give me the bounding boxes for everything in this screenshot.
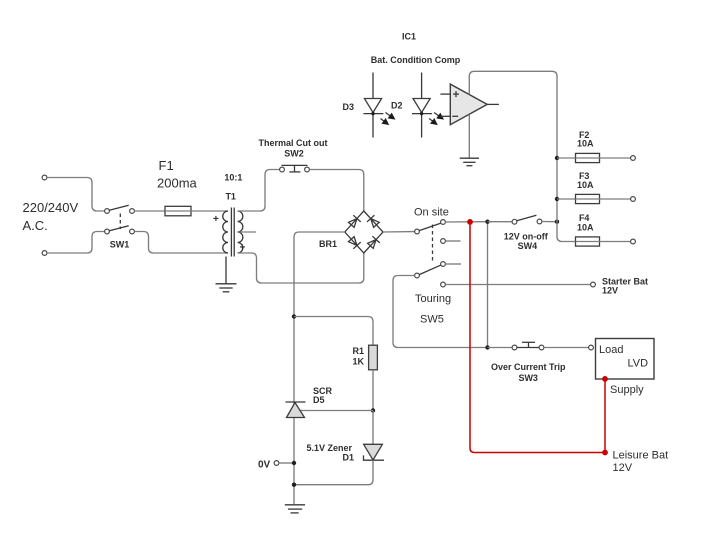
svg-text:D2: D2 — [391, 101, 403, 111]
node F3 output terminal — [631, 197, 636, 202]
wire T1 secondary bottom to BR1 bottom — [238, 253, 364, 283]
svg-text:D1: D1 — [343, 453, 355, 463]
ground below T1 — [216, 257, 237, 292]
junction on-site node — [485, 220, 489, 224]
wire red leisure battery feed — [470, 223, 605, 453]
junction red leisure bat — [602, 450, 608, 456]
node LVD load terminal — [589, 345, 594, 350]
junction R1 branch tap — [292, 314, 296, 318]
svg-text:BR1: BR1 — [319, 239, 337, 249]
wire SW5 upper throw to node (on site) — [445, 221, 485, 223]
ground bottom rail — [285, 505, 305, 513]
wire bus to F3 — [557, 198, 576, 200]
resistor R1 — [369, 345, 378, 370]
wire IC1 ground pin down — [468, 115, 470, 158]
zener diode D1 — [364, 444, 385, 460]
wire tap to R1 — [294, 317, 373, 346]
wire F4 to terminal — [600, 241, 631, 243]
wire SW3 to LVD load terminal — [544, 347, 589, 349]
wire SW5 lower throw to starter battery — [445, 284, 590, 286]
svg-text:On site: On site — [414, 207, 449, 219]
bridge rectifier BR1 — [345, 211, 383, 253]
wire SW1 to F1 — [134, 210, 164, 212]
wire AC N to SW1 lower pole — [47, 232, 105, 254]
wire BR1 left vertex to DC negative rail — [294, 232, 345, 504]
junction F3 tap — [555, 197, 559, 201]
svg-text:+: + — [240, 243, 246, 254]
svg-text:12V: 12V — [602, 285, 618, 295]
wire AC L to SW1 upper pole — [47, 178, 105, 212]
svg-text:Touring: Touring — [415, 293, 451, 305]
svg-text:5.1V Zener: 5.1V Zener — [307, 443, 353, 453]
svg-text:12V: 12V — [613, 462, 633, 474]
node Starter Bat terminal — [591, 282, 596, 287]
svg-text:LVD: LVD — [628, 358, 649, 370]
svg-text:Over Current Trip: Over Current Trip — [491, 362, 566, 372]
wire T1 secondary top to SW2 — [238, 170, 280, 212]
node F4 output terminal — [631, 239, 636, 244]
wire 0V terminal to rail — [279, 462, 292, 464]
fuse F3 — [576, 194, 600, 203]
svg-text:220/240V: 220/240V — [23, 200, 79, 215]
svg-text:R1: R1 — [353, 346, 365, 356]
junction 0V tap — [292, 461, 296, 465]
wire 12V bus lower section to F4 — [557, 158, 576, 242]
svg-text:10A: 10A — [577, 138, 594, 148]
node AC input terminal N — [42, 251, 47, 256]
transformer T1 — [223, 208, 243, 257]
pin output stub — [487, 103, 499, 105]
wire IC1 supply pin to 12V bus top — [469, 71, 557, 158]
junction SW4 bus — [555, 220, 559, 224]
wire T1 secondary center tap stub — [238, 231, 256, 233]
junction F2 tap — [555, 156, 559, 160]
pin + input stub — [440, 93, 450, 95]
svg-text:+: + — [213, 214, 219, 225]
junction SW3 line — [485, 345, 489, 349]
wire F3 to terminal — [600, 198, 631, 200]
ground below IC1 — [460, 158, 479, 166]
LED D2 — [412, 73, 443, 138]
wire SW1 lower to T1 primary bottom — [134, 232, 228, 254]
wire BR1 right to SW5 pole — [383, 231, 415, 233]
junction red on-site tap — [467, 219, 473, 225]
svg-text:10:1: 10:1 — [224, 173, 242, 183]
op-amp IC1 comparator — [450, 84, 487, 125]
LVD box U-LVD — [596, 339, 655, 380]
svg-text:Leisure Bat: Leisure Bat — [613, 450, 669, 462]
svg-text:Bat. Condition Comp: Bat. Condition Comp — [371, 55, 461, 65]
wire zener to DC negative rail — [294, 460, 373, 485]
switch SW3 over current trip — [488, 342, 544, 350]
node AC input terminal L — [42, 175, 47, 180]
svg-text:1K: 1K — [353, 357, 365, 367]
junction red LVD supply — [602, 376, 608, 382]
wire SW2 to BR1 top — [309, 170, 363, 212]
svg-text:D5: D5 — [313, 395, 325, 405]
svg-text:SW1: SW1 — [110, 240, 130, 250]
svg-text:D3: D3 — [343, 102, 355, 112]
svg-text:F1: F1 — [159, 158, 174, 173]
wire gate node to SCR gate — [300, 410, 373, 412]
wire F1 to T1 primary top — [191, 210, 228, 212]
svg-text:0V: 0V — [258, 460, 271, 471]
svg-text:SW5: SW5 — [420, 314, 444, 326]
switch SW5 (DPDT on-site / touring) — [415, 220, 461, 287]
LED D3 — [363, 73, 394, 138]
svg-text:Load: Load — [599, 344, 623, 356]
wire SW4 to 12V bus — [542, 221, 555, 223]
svg-text:IC1: IC1 — [402, 32, 416, 42]
switch SW4 12V on-off — [512, 215, 542, 224]
wire gate node to zener D1 — [372, 411, 374, 445]
wire F2 to terminal — [600, 157, 631, 159]
svg-text:Thermal Cut out: Thermal Cut out — [259, 138, 328, 148]
svg-text:A.C.: A.C. — [23, 218, 48, 233]
node 0V terminal — [274, 461, 279, 466]
junction zener return — [292, 483, 296, 487]
svg-text:Supply: Supply — [610, 384, 644, 396]
switch SW2 thermal cut out — [280, 165, 310, 172]
pin - input stub — [440, 115, 450, 117]
fuse F2 — [576, 153, 600, 162]
svg-text:10A: 10A — [577, 222, 594, 232]
svg-text:SW3: SW3 — [518, 373, 538, 383]
junction gate node — [371, 408, 375, 412]
svg-text:T1: T1 — [225, 192, 236, 202]
wire SW5 lower pole down to SW3 line — [393, 276, 486, 348]
node F2 output terminal — [631, 156, 636, 161]
svg-text:200ma: 200ma — [157, 176, 198, 191]
svg-text:12V on-off: 12V on-off — [504, 232, 549, 242]
fuse F1 — [165, 206, 191, 216]
wire node to SW4 — [488, 221, 513, 223]
wire red LVD supply to leisure bat node — [604, 379, 606, 453]
switch SW1 (DPST mains switch) — [105, 205, 135, 234]
wire R1 to gate node — [372, 370, 374, 411]
svg-text:SW2: SW2 — [284, 149, 304, 159]
svg-text:10A: 10A — [577, 180, 594, 190]
SCR D5 — [286, 402, 306, 418]
svg-text:SW4: SW4 — [518, 241, 538, 251]
fuse F4 — [576, 237, 600, 246]
wire vertical link on-site node to SW3 line — [487, 222, 489, 348]
wire bus to F2 — [557, 157, 576, 159]
